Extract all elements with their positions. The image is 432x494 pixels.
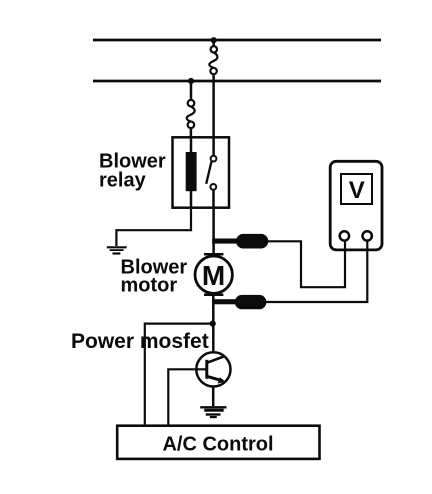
wire: relay coil top lead: [190, 137, 193, 152]
motor M1: top brush cap: [204, 253, 223, 256]
label: Blower relay: [99, 151, 166, 192]
node: junction dot on bus 2: [188, 78, 194, 84]
wire: emitter to ground G2: [212, 386, 215, 406]
svg-text:M: M: [202, 260, 225, 291]
power bus line 2: [93, 80, 381, 83]
wire: drain node to A/C control (left branch): [145, 324, 213, 426]
wire: coil to ground G1: [116, 208, 191, 246]
relay K1: Blower relay box: [173, 137, 230, 207]
motor M1: body: [195, 256, 232, 293]
svg-text:A/C Control: A/C Control: [162, 434, 273, 456]
label: Blower motor: [121, 256, 188, 296]
A/C Control box: [117, 426, 319, 459]
power bus line 1 (top): [93, 39, 381, 42]
wire: base lead to A/C control: [168, 369, 207, 425]
svg-text:V: V: [349, 177, 365, 204]
svg-text:motor: motor: [121, 275, 178, 297]
relay switch blade: [206, 162, 211, 184]
transistor Q1: emitter diagonal with arrow: [207, 376, 223, 381]
ground G2: [200, 407, 226, 417]
motor M1: bottom brush cap: [204, 293, 223, 296]
voltmeter V1: display window: [341, 174, 372, 204]
node: junction dot on bus 1: [211, 37, 217, 43]
wire: relay to motor: [212, 208, 215, 254]
fusible link FL1 (right): [209, 46, 217, 74]
voltmeter V1: body: [330, 161, 382, 250]
wire: motor to mosfet node: [212, 296, 215, 353]
svg-text:Power mosfet: Power mosfet: [71, 330, 209, 353]
wire: relay coil bottom lead: [190, 191, 193, 208]
fusible link FL2 (left): [187, 100, 195, 128]
wire: bus1 to fusible link FL1: [212, 40, 215, 46]
relay switch upper contact: [211, 156, 217, 162]
wire: J2 to voltmeter minus terminal: [266, 241, 367, 302]
transistor Q1: collector diagonal: [207, 357, 224, 363]
transistor Q1: body circle: [196, 352, 230, 386]
wire: relay switch top lead: [212, 137, 215, 155]
wire: bus2 to fusible link FL2: [190, 81, 193, 100]
wire: FL2 down to relay box: [190, 128, 193, 137]
relay switch lower contact: [210, 184, 216, 190]
wire: J1 to voltmeter plus terminal: [268, 241, 345, 288]
wire: FL1 down through bus2 to relay box: [212, 74, 215, 137]
transistor Q1: base bar: [205, 360, 208, 379]
voltmeter V1: left terminal: [340, 231, 349, 240]
node: junction dot at mosfet drain: [210, 321, 216, 327]
relay coil (filled bar): [186, 152, 197, 191]
ground G1: [107, 247, 127, 253]
connector J2 (lower probe): [212, 295, 266, 309]
connector J1 (upper probe): [212, 234, 268, 249]
voltmeter V1: right terminal: [363, 231, 372, 240]
svg-text:relay: relay: [99, 170, 147, 192]
wire: relay switch bottom lead: [212, 190, 215, 208]
